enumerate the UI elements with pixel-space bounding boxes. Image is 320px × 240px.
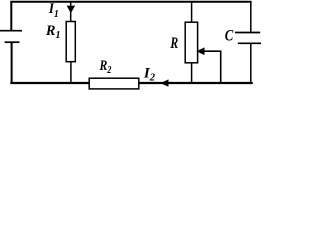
wire R branch bottom [191, 63, 193, 84]
resistor R1 [66, 22, 75, 62]
wire R branch top [191, 1, 193, 23]
wire R1 branch top [70, 1, 72, 22]
arrow I1 (current into R1, pointing down) [67, 6, 76, 14]
resistor R2 [89, 78, 139, 89]
wire right upper [250, 1, 252, 33]
resistor R (rheostat body) [185, 22, 197, 63]
wire bottom [10, 82, 253, 84]
wire right lower [250, 43, 252, 84]
capacitor C [235, 33, 261, 44]
wire R1 branch bottom [70, 62, 72, 84]
wire top [10, 1, 251, 3]
wire left lower [11, 42, 13, 84]
wiper arrowhead of R (pointing left into box) [196, 47, 204, 55]
svg-text:C: C [225, 27, 234, 45]
wire left upper [10, 1, 12, 31]
wiper wire of R (horizontal then down to bottom wire) [204, 51, 221, 84]
battery [0, 31, 22, 43]
svg-text:R: R [170, 34, 179, 51]
arrow I2 (current in bottom wire, pointing left) [160, 79, 168, 86]
